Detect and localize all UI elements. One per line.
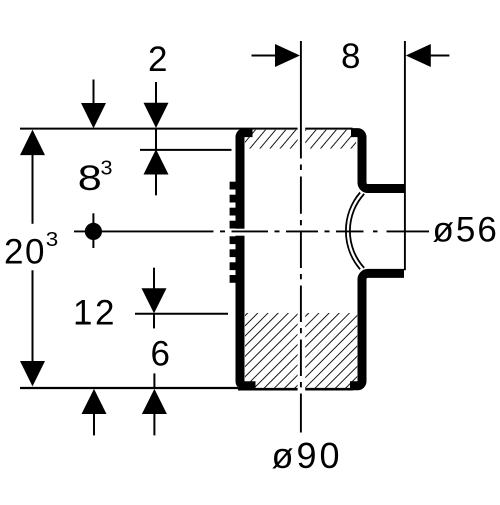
svg-text:8: 8 bbox=[78, 159, 102, 198]
arrow up at 156 bbox=[144, 149, 169, 174]
arrow down at 93 top bbox=[93, 80, 95, 105]
branch junction arcs bbox=[346, 193, 360, 270]
arrow up at 94 bottom bbox=[82, 389, 107, 414]
arrow down at 156 top bbox=[155, 82, 157, 104]
vertical centerline bbox=[300, 41, 302, 433]
centerline halo bottom bbox=[298, 311, 306, 391]
svg-text:ø90: ø90 bbox=[272, 435, 343, 476]
dimension line socket depth bbox=[135, 313, 228, 315]
spigot teeth bbox=[230, 182, 237, 283]
arrow down at 154 middle bbox=[153, 268, 155, 289]
dimension line 2 below top bbox=[140, 149, 232, 151]
svg-text:3: 3 bbox=[101, 157, 113, 179]
reference point dot bbox=[85, 223, 102, 240]
body outline left bbox=[240, 133, 256, 386]
svg-text:2: 2 bbox=[148, 40, 167, 79]
horizontal centerline bbox=[74, 230, 429, 232]
svg-text:3: 3 bbox=[46, 229, 59, 251]
dimension line bottom edge bbox=[20, 387, 238, 389]
svg-text:ø56: ø56 bbox=[433, 210, 499, 249]
arrow up 20dim bbox=[20, 130, 45, 156]
dot vertical tick bbox=[92, 213, 94, 248]
arrow down 20dim bbox=[32, 270, 34, 362]
arrow right 8dim bbox=[252, 55, 277, 57]
svg-text:6: 6 bbox=[151, 334, 170, 373]
dimension line top edge bbox=[20, 128, 353, 130]
centerline halo left edge bbox=[228, 229, 247, 236]
hatch bottom socket region bbox=[245, 313, 357, 388]
arrow left 8dim bbox=[406, 44, 431, 67]
svg-text:12: 12 bbox=[73, 293, 117, 332]
branch end face line bbox=[404, 41, 406, 270]
connector stem 2dim bbox=[155, 128, 157, 150]
svg-text:20: 20 bbox=[4, 233, 46, 272]
body outline right and branch bbox=[350, 133, 404, 386]
svg-text:8: 8 bbox=[341, 37, 360, 76]
centerline halo top bbox=[298, 126, 306, 151]
arrow up at 154 bottom bbox=[153, 373, 155, 387]
hatch top wall band bbox=[245, 130, 356, 149]
